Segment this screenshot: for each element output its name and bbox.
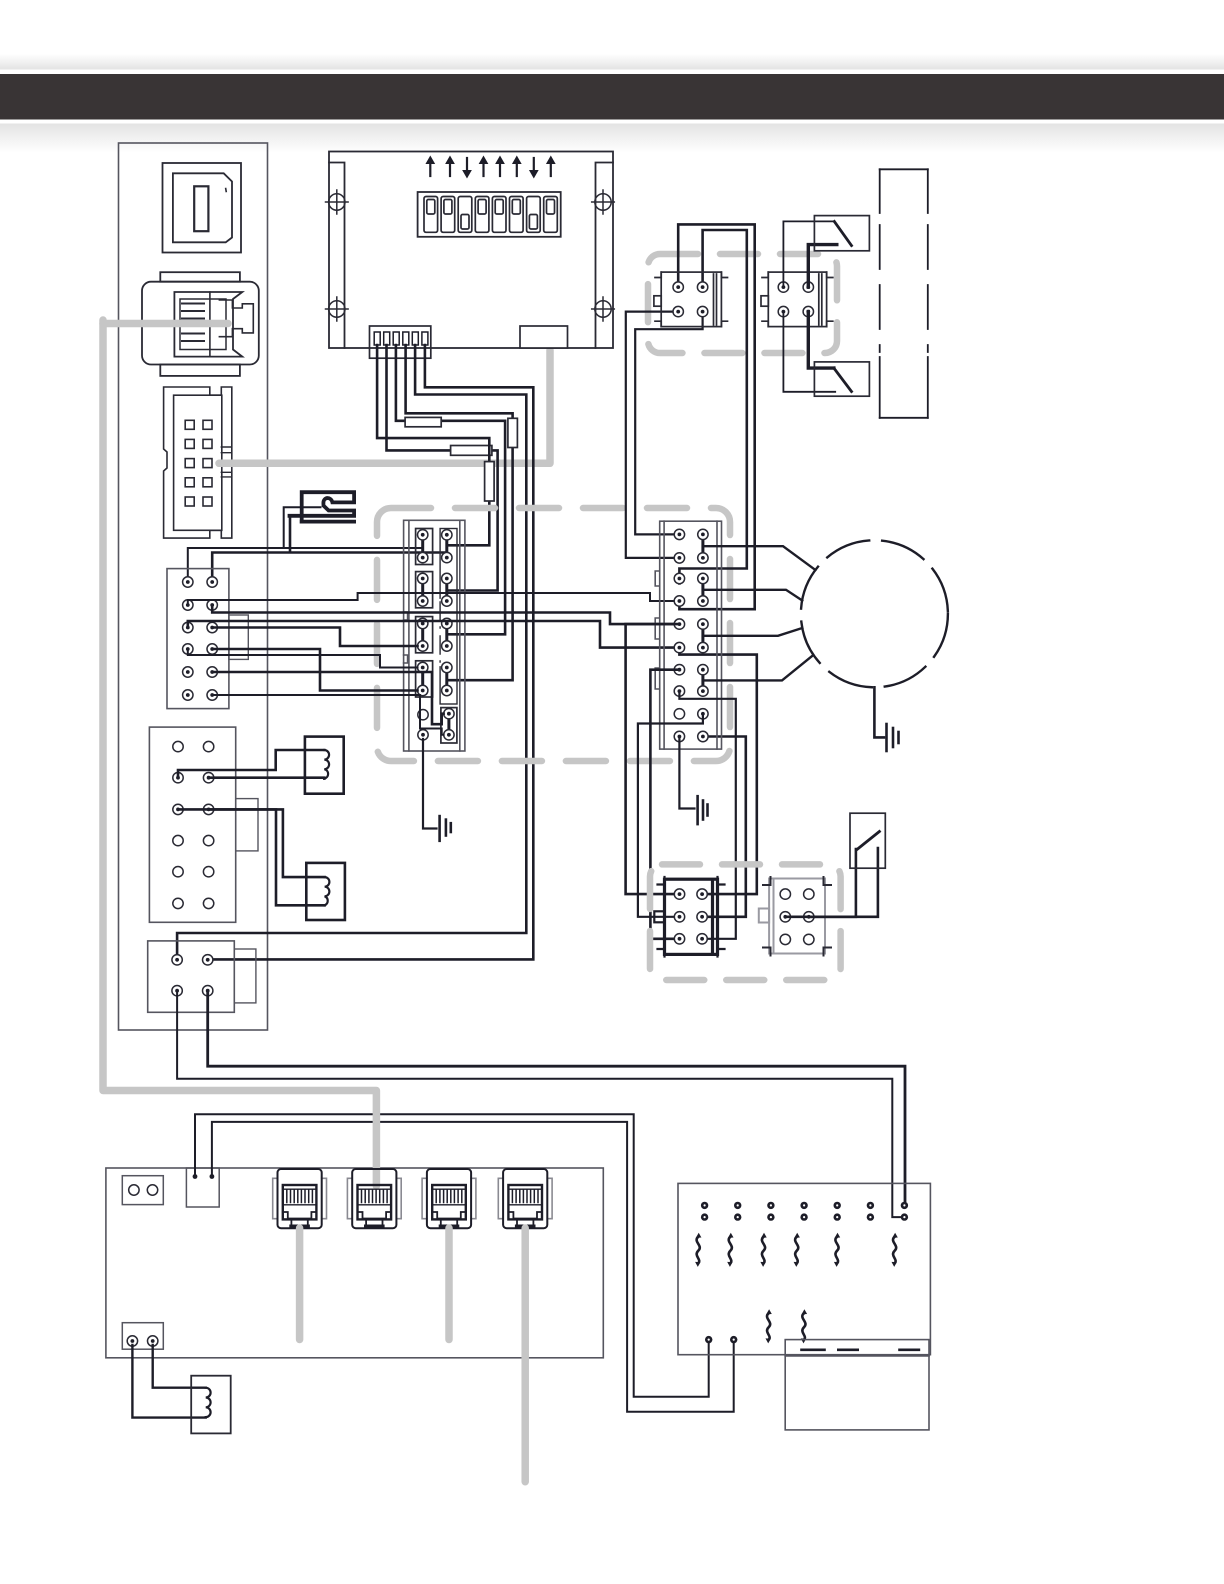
header shadow above — [0, 54, 1224, 70]
relay coil K2 box — [306, 863, 345, 920]
wire P2 r2R to K1 bottom — [209, 776, 325, 779]
fuse squiggle 3 — [760, 1233, 766, 1267]
2-pin aux terminal lower left — [122, 1323, 163, 1350]
J4 contact cell 2 — [416, 572, 433, 608]
DIP switch module board — [329, 152, 613, 349]
2-pin power terminal on board — [186, 1168, 219, 1207]
battery B1 — [785, 1340, 929, 1430]
wire M1 row10L to ground G2 — [679, 737, 694, 809]
RJ45 jack A — [273, 1169, 327, 1228]
DIP setting arrows (up up down up up up down up) — [426, 157, 555, 178]
wire harness pin2 through label to link2 — [387, 345, 498, 591]
motor lead 4 — [703, 656, 813, 681]
K3 coil winding — [206, 1388, 211, 1417]
J4 cell1 pins and link — [421, 535, 424, 558]
mounting screw bottom-right — [592, 297, 615, 321]
connector block P2 (lower-left 2x6) — [149, 727, 235, 922]
dashed gray harness boundary (center) — [377, 508, 730, 761]
wire harness pin6 to aux connector (long run to bottom-left 2x2 box) — [208, 345, 534, 959]
fuse squiggle 6 — [892, 1233, 898, 1267]
J4 contact cell 4 — [416, 661, 433, 697]
wire aux terminal R to coil K3 — [153, 1345, 206, 1388]
wire connB BR to switch S3 — [808, 312, 834, 369]
wire P1 r6R to J4 bottom cell lower — [212, 695, 443, 735]
RJ45 jack D — [498, 1169, 552, 1228]
M1 pins right column — [698, 529, 708, 539]
J4 cell3 pins and link — [421, 624, 424, 647]
wire box1 pin1R to clip lower arm and link1 — [212, 517, 447, 582]
battery terminal marks — [802, 1349, 919, 1352]
wire connA TR down to M1 row3L — [679, 230, 746, 584]
ground symbol G3 (motor) — [874, 687, 898, 751]
gray cable jack A — [296, 1228, 304, 1340]
J4 cell2 pins and link — [421, 579, 424, 602]
wire aux terminal L to coil K3 — [132, 1345, 205, 1418]
terminal row pins — [701, 1202, 708, 1209]
RJ45 jack B — [347, 1169, 401, 1228]
mounting screw top-right — [592, 190, 615, 214]
connector A (4-pin) — [654, 272, 728, 327]
label sleeve L2 on pin2 wire — [451, 446, 492, 456]
limit switch S4 — [850, 813, 885, 868]
P1 side tab — [229, 615, 248, 659]
header block J4 (center) body — [404, 520, 465, 751]
wire M1 row7L to J5 pin BL — [650, 670, 679, 939]
limit switch S2 — [814, 216, 869, 251]
DIP switch bank S1 — [418, 192, 561, 237]
IDC pins (2x5 squares) — [185, 420, 212, 506]
fuse squiggle 8 — [801, 1309, 807, 1343]
ferrite bead F2 on pin1 wire — [485, 462, 495, 501]
motor MTR (dashed circle) — [801, 540, 948, 687]
wire J6 MR to switch S4 blade — [809, 848, 878, 917]
motor lead 3 — [703, 628, 802, 636]
fuse squiggle 4 — [794, 1233, 800, 1267]
wire M1 row8L to J5 pin BR — [679, 691, 735, 939]
motor lead 2 — [703, 590, 802, 601]
K1 coil winding — [324, 750, 329, 779]
J6 pins — [780, 889, 790, 899]
gray cable RJ11 to jack2 (long run) — [103, 320, 376, 1186]
P3 side tab — [234, 949, 256, 1003]
wire power terminal L to battery panel pin1 — [195, 1114, 709, 1397]
P2 side tab — [236, 799, 258, 851]
fuse squiggle 7 — [766, 1309, 772, 1343]
wire power terminal R to battery panel pin2 — [212, 1122, 734, 1412]
indicator box with two holes — [122, 1176, 163, 1205]
wire P1 r2R stepping to right block — [212, 605, 674, 624]
P2 pins — [173, 741, 183, 751]
J4 right contact column — [440, 529, 457, 705]
ground symbol G1 — [423, 739, 451, 841]
wire P1 r4R to J4 cell4 lower — [212, 649, 417, 691]
gray cable jack C — [445, 1228, 453, 1340]
aux box on DIP board bottom — [520, 326, 568, 348]
wire P2 r2L to K1 top — [178, 750, 324, 778]
motor connector block M1 — [655, 521, 721, 749]
battery feed pins — [705, 1336, 712, 1343]
distribution board (bottom left panel) — [106, 1168, 603, 1358]
wire M1 row5L to J5 pin TL — [626, 624, 680, 894]
wire connB BL to switch S3 contact — [783, 312, 835, 392]
gray cable into RJ11 — [103, 320, 228, 328]
M1 pins left column — [674, 529, 684, 539]
dashed gray boundary (top right) — [648, 254, 837, 353]
J4 ground pin — [418, 730, 428, 740]
P1 pins — [183, 577, 193, 587]
J4 bottom cell pins and link — [447, 714, 450, 735]
wire M1 row10R to J5 pin MR — [703, 737, 746, 917]
relay coil K1 box — [305, 737, 344, 794]
terminal clip TB1 — [290, 492, 355, 521]
RJ45 jack C — [422, 1169, 476, 1228]
wire P1 r3L stepping to right block — [188, 621, 674, 648]
wire P1 r5R to J4 bottom cell — [212, 672, 443, 724]
connector B pins — [778, 282, 788, 292]
battery / terminal board (bottom right) — [678, 1183, 930, 1354]
M1 right column links — [701, 534, 704, 691]
J5 pins — [674, 889, 684, 899]
wire P1 r4L to J4 cell4 — [188, 649, 418, 668]
wire connA BL to M1 block row2L — [626, 312, 678, 558]
limit switch S3 — [814, 362, 869, 396]
wire P2 r3R to K2 top — [209, 809, 325, 877]
connector block P1 (left, 2x6) — [167, 569, 229, 709]
wire box1 pin1L to clip and header block — [188, 507, 423, 582]
wire M1 row6L to J5 pin TR — [679, 648, 756, 895]
wire P2 r3L to K2 bottom — [178, 809, 325, 905]
wire harness pin3 through label to link3 — [396, 345, 505, 634]
solenoid coil K3 box — [191, 1376, 231, 1434]
wire connA BR to M1 block row1L — [635, 312, 702, 535]
J4 contact cell 1 — [416, 529, 433, 565]
wire J6 ML to switch S4 — [785, 849, 856, 917]
wire harness pin5 (long run to bottom-left 2x2 box) — [177, 345, 526, 955]
header dark bar — [0, 74, 1224, 120]
fuse squiggle 2 — [727, 1233, 733, 1267]
J4 contact cell 3 — [416, 617, 433, 653]
mounting screw bottom-left — [326, 297, 349, 321]
wire M1 row9R to J5 pin ML — [638, 714, 703, 917]
mounting screw top-left — [326, 190, 349, 214]
fuse squiggle 1 — [695, 1233, 701, 1267]
connector B (4-pin) — [761, 272, 833, 327]
wire P3 to terminal board (thin run) — [177, 991, 900, 1217]
P3 pins — [172, 955, 182, 965]
wire P1 r2L stepping to right block — [188, 593, 674, 605]
J4 spare hole — [418, 710, 428, 720]
RJ11 jack J2 (side view) — [142, 272, 259, 376]
ferrite bead F1 on pin4 wire — [508, 418, 518, 447]
IDC header J3 — [164, 387, 232, 538]
label sleeve L1 on pin3 wire — [405, 417, 441, 426]
J4 right column pins and links — [445, 535, 448, 691]
wire harness pin4 through ferrite to link4 — [406, 345, 513, 680]
gray cable jack D — [521, 1228, 529, 1482]
dashed gray boundary (bottom right) — [650, 864, 841, 980]
header shadow below — [0, 124, 1224, 153]
USB-B connector J1 — [163, 163, 242, 253]
connector J6 (light 6-pin) — [759, 879, 825, 954]
connector A pins — [673, 282, 683, 292]
aux connector P3 (2x2) — [148, 941, 235, 1012]
motor lead 1 — [703, 546, 816, 570]
K2 coil winding — [325, 877, 330, 905]
connector J5 (dark 6-pin) — [654, 877, 724, 957]
gray cable from IDC to DIP board — [219, 350, 550, 463]
J4 bottom contact cell — [441, 708, 457, 743]
wire connA TL down to M1 row4L — [678, 224, 755, 609]
wire connB TR to switch S2 contact — [808, 245, 837, 288]
wire connB TL to switch S2 — [783, 221, 834, 287]
ground symbol G2 — [698, 796, 708, 824]
J4 cell4 pins and link — [421, 668, 424, 691]
6-pin header on DIP board — [370, 326, 431, 358]
fuse squiggle 5 — [834, 1233, 840, 1267]
wire harness pin1 through ferrite to link1 — [377, 345, 489, 545]
wire P1 r3R to J4 cell3 — [212, 628, 417, 647]
panel boundary (tall dashed rect) — [880, 169, 928, 417]
left enclosure box — [119, 143, 268, 1030]
wire P3 to terminal board (thick run) — [208, 991, 905, 1201]
